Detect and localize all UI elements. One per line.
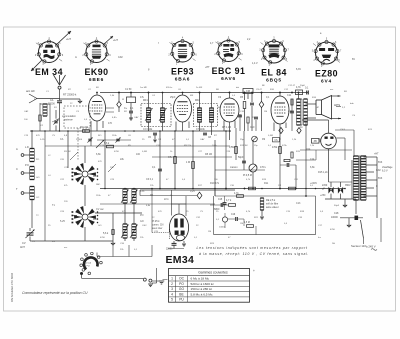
svg-text:1: 1 [171,277,173,281]
svg-text:50μF: 50μF [334,205,340,207]
svg-text:MF1: MF1 [143,99,148,102]
svg-text:CM: CM [246,90,250,93]
svg-text:1M: 1M [240,223,243,225]
svg-text:Secteur 110: Secteur 110 [351,244,366,248]
svg-text:6AV6: 6AV6 [221,76,236,82]
svg-text:Pt 0,5 M: Pt 0,5 M [243,174,252,177]
svg-text:25pF: 25pF [170,96,176,99]
svg-text:6,8k: 6,8k [96,153,101,156]
svg-text:EM 34: EM 34 [35,67,63,77]
svg-text:C: C [16,167,18,171]
svg-text:Les tensions indiquées sont: Les tensions indiquées sont mesurées par… [197,246,309,250]
svg-text:10000: 10000 [331,216,338,219]
svg-text:MF2: MF2 [195,99,200,102]
svg-text:R11 1M: R11 1M [240,145,248,147]
svg-text:22 k: 22 k [164,198,169,201]
svg-text:470: 470 [108,122,113,125]
svg-text:+: + [253,269,255,273]
svg-text:5-25: 5-25 [140,191,145,193]
svg-text:+250: +250 [320,194,326,197]
svg-text:det: det [236,86,239,89]
svg-text:520 kc à 1600 kc: 520 kc à 1600 kc [191,282,215,286]
svg-text:autre valeur: autre valeur [266,206,279,209]
svg-text:455 kc: 455 kc [166,87,173,89]
svg-text:6V3: 6V3 [378,177,383,180]
svg-text:5,8 Mc à 6,5 Mc: 5,8 Mc à 6,5 Mc [191,292,213,296]
svg-text:1M: 1M [278,185,281,187]
svg-text:4700: 4700 [114,151,120,153]
svg-text:5-25: 5-25 [60,220,65,223]
svg-text:4,7k: 4,7k [234,192,239,195]
svg-text:CV: CV [32,241,36,243]
svg-text:1,5 M: 1,5 M [244,222,250,224]
svg-text:Liaison: Liaison [230,166,238,169]
svg-text:10000: 10000 [219,227,226,229]
svg-text:PO: PO [36,159,39,161]
svg-text:4700: 4700 [330,229,336,231]
svg-text:1M: 1M [264,111,267,113]
svg-text:2: 2 [171,282,173,286]
svg-text:sensib: sensib [85,263,92,265]
svg-text:CS 8: CS 8 [340,129,346,131]
svg-text:5-25: 5-25 [40,139,45,141]
svg-text:osc.: osc. [96,183,101,186]
svg-text:5,6 k: 5,6 k [104,142,110,145]
svg-text:EK90: EK90 [84,67,108,77]
svg-text:1M: 1M [158,139,161,141]
svg-text:ANT: ANT [20,246,25,249]
svg-text:6BE6: 6BE6 [89,77,104,83]
svg-text:6V4: 6V4 [321,79,332,85]
svg-text:100: 100 [136,153,141,156]
svg-text:Commutateur représenté sur: Commutateur représenté sur la position C… [22,291,88,295]
svg-text:8Ω: 8Ω [344,91,347,93]
svg-text:4,7 k: 4,7 k [226,199,232,202]
svg-text:EF93: EF93 [171,67,194,77]
svg-text:22000: 22000 [166,249,173,251]
svg-text:6,3 V: 6,3 V [382,170,388,173]
svg-text:R8 1M: R8 1M [205,153,212,156]
svg-text:1er MF: 1er MF [140,86,148,89]
svg-text:C13: C13 [296,202,301,205]
svg-text:ant HF: ant HF [26,89,35,93]
svg-text:PU: PU [86,265,89,267]
svg-text:à la masse, récept: 110 V ,: à la masse, récept: 110 V , CV fermé, sa… [199,252,309,256]
svg-text:R14: R14 [306,148,311,151]
svg-text:C14: C14 [310,158,315,161]
svg-text:CV: CV [22,241,26,245]
svg-text:R9 22k: R9 22k [184,145,192,147]
svg-text:RO: RO [98,135,102,137]
svg-text:OC: OC [179,277,185,281]
svg-text:0,5M: 0,5M [268,135,273,137]
svg-text:1 M: 1 M [186,161,190,164]
svg-text:GO: GO [98,225,102,227]
svg-text:GO: GO [36,177,40,179]
svg-text:C9 47: C9 47 [256,89,263,91]
svg-text:CA: CA [60,138,64,141]
svg-text:CS: CS [352,115,356,117]
svg-text:6BA6: 6BA6 [175,77,190,83]
svg-text:1,4 V: 1,4 V [252,62,258,65]
svg-text:4700: 4700 [100,237,106,239]
svg-text:C15: C15 [218,199,223,201]
svg-text:+HT: +HT [113,38,118,42]
svg-text:R3 1M: R3 1M [64,151,71,153]
svg-text:PU: PU [179,298,184,302]
svg-text:CV: CV [200,211,204,213]
svg-text:antenne: antenne [64,119,73,122]
svg-text:EM34: EM34 [166,254,195,266]
svg-text:+HT: +HT [66,37,71,41]
svg-text:6 Mc à 18 Mc: 6 Mc à 18 Mc [191,277,210,281]
svg-text:0,25: 0,25 [190,190,195,193]
svg-text:EL 84: EL 84 [261,68,287,78]
svg-text:à 245 V: à 245 V [366,245,376,249]
svg-text:CV: CV [52,135,56,137]
svg-text:HP: HP [316,107,320,109]
svg-text:C12 47: C12 47 [288,85,296,87]
svg-text:C1 50: C1 50 [125,88,132,91]
svg-text:A: A [16,147,18,151]
svg-text:470k: 470k [272,146,278,149]
svg-text:Gammes couvertes: Gammes couvertes [198,271,228,275]
svg-text:C16: C16 [231,214,236,216]
svg-text:CAV: CAV [134,116,139,119]
svg-text:4: 4 [171,292,173,296]
svg-text:5: 5 [171,298,173,302]
svg-text:C11: C11 [287,94,292,97]
svg-text:L.D: L.D [25,146,29,149]
svg-text:EZ80: EZ80 [315,69,338,79]
svg-text:3: 3 [171,287,173,291]
svg-text:GO: GO [140,220,144,223]
svg-text:470 k: 470 k [260,166,267,169]
svg-text:RO 22k: RO 22k [80,126,89,129]
svg-text:6,8k: 6,8k [310,166,315,169]
svg-text:150 kc à 280 kc: 150 kc à 280 kc [191,287,213,291]
svg-text:6BQ5: 6BQ5 [266,78,282,84]
svg-text:CAV: CAV [118,56,123,59]
svg-text:m: m [75,56,77,59]
svg-text:C10: C10 [250,126,255,129]
svg-text:350V: 350V [345,184,351,187]
svg-text:CO 110k: CO 110k [143,128,153,131]
svg-text:1M: 1M [208,231,211,233]
svg-text:+HT: +HT [374,153,379,156]
svg-text:ant: ant [52,240,55,243]
svg-text:OC: OC [36,197,40,199]
svg-text:CAV: CAV [200,138,205,141]
svg-text:R7 0,1M: R7 0,1M [222,126,231,129]
svg-text:6,3V: 6,3V [296,68,301,71]
svg-text:+HT: +HT [205,66,210,69]
svg-text:2e MF: 2e MF [196,87,203,89]
svg-text:R15 1,2k: R15 1,2k [318,171,328,174]
svg-text:C6 0,1: C6 0,1 [146,178,154,181]
svg-text:RN SCHEMA CTC 6004: RN SCHEMA CTC 6004 [10,273,14,302]
svg-text:OSC: OSC [142,225,147,227]
svg-text:PO: PO [179,282,184,286]
svg-text:22000: 22000 [76,139,83,141]
svg-text:0,5M: 0,5M [229,146,234,149]
svg-text:CV osc: CV osc [96,208,105,211]
svg-text:6V3: 6V3 [378,161,383,164]
svg-text:C18: C18 [334,212,339,215]
svg-text:R11: R11 [264,182,269,185]
svg-text:EBC 91: EBC 91 [212,66,246,76]
svg-text:RT 23000 k: RT 23000 k [63,93,77,97]
svg-text:GO: GO [179,287,185,291]
svg-text:6V: 6V [352,58,355,61]
svg-text:50pF: 50pF [238,156,244,159]
svg-text:PO: PO [140,214,144,217]
svg-text:ZB: ZB [314,140,317,143]
svg-text:avec inter: avec inter [152,227,163,230]
svg-text:P.O: P.O [25,164,29,167]
svg-text:R10 47k: R10 47k [210,182,220,185]
svg-text:5,6 k: 5,6 k [103,232,109,235]
svg-text:CS: CS [274,140,278,142]
svg-text:20pF: 20pF [300,85,306,87]
svg-text:0,5M: 0,5M [142,151,147,153]
svg-text:C7 110k: C7 110k [196,128,206,131]
